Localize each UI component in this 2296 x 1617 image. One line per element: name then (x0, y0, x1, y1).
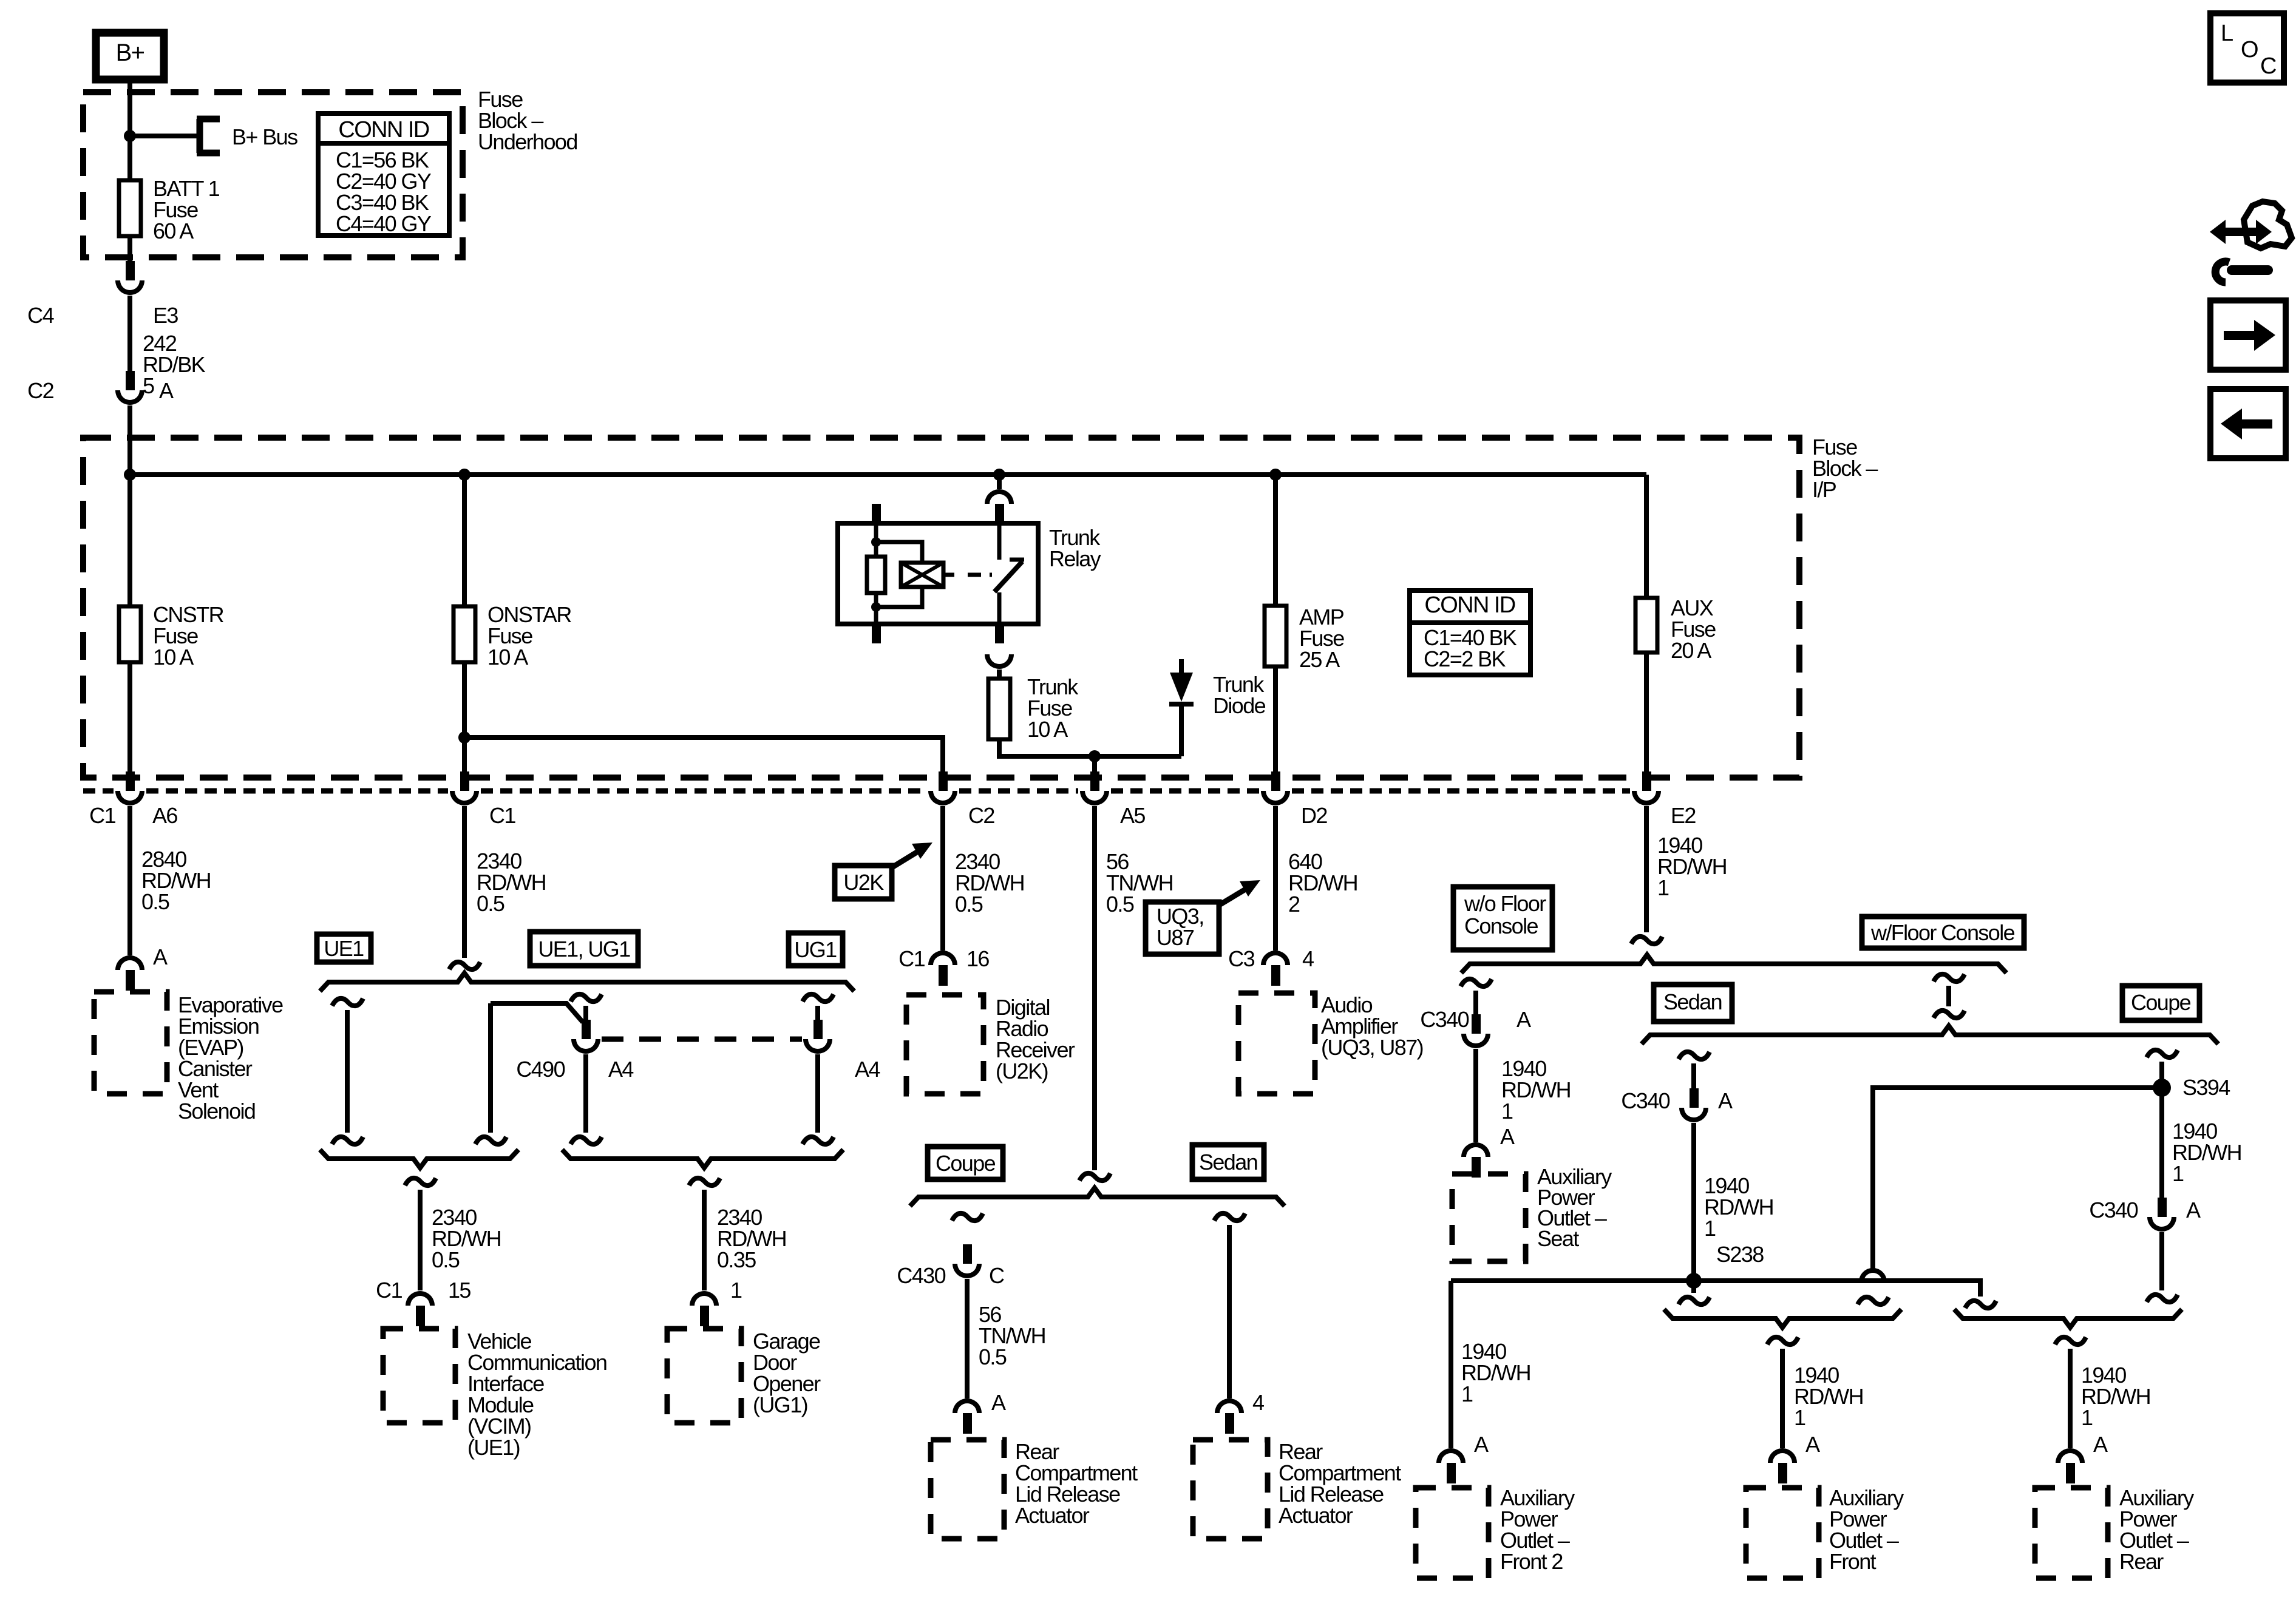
svg-text:C340: C340 (1420, 1007, 1469, 1032)
dashed jumper A4 A4 (602, 1037, 802, 1042)
brace rear outlet merge (1954, 1309, 2182, 1327)
svg-text:C: C (989, 1263, 1004, 1288)
svg-text:10 A: 10 A (1027, 717, 1068, 742)
svg-text:Coupe: Coupe (2131, 990, 2191, 1015)
svg-text:0.5: 0.5 (955, 892, 983, 917)
svg-text:1: 1 (1657, 875, 1669, 900)
svg-text:C4=40 GY: C4=40 GY (336, 211, 432, 236)
component garage door opener (667, 1329, 741, 1423)
svg-text:0.5: 0.5 (141, 889, 169, 914)
wire below C490 (583, 1054, 588, 1133)
option box UE1 UG1 (530, 932, 638, 966)
svg-text:S394: S394 (2182, 1075, 2230, 1100)
connector C340 A coupe (2158, 1198, 2167, 1217)
option box wo floor console (1453, 887, 1552, 950)
svg-text:A: A (159, 378, 174, 403)
component rear lid actuator coupe (931, 1440, 1004, 1539)
svg-text:E3: E3 (153, 303, 178, 328)
component VCIM (383, 1329, 455, 1423)
wire 2840 RD/WH (127, 806, 132, 955)
connector E2 (1642, 771, 1651, 791)
svg-text:A: A (1805, 1432, 1820, 1457)
svg-text:2: 2 (1288, 892, 1300, 917)
trunk relay feed wire (997, 475, 1002, 489)
svg-text:CONN ID: CONN ID (338, 117, 429, 143)
leg sedan outlet (1679, 1052, 1710, 1059)
svg-text:w/Floor Console: w/Floor Console (1870, 920, 2015, 945)
svg-text:(UQ3, U87): (UQ3, U87) (1321, 1035, 1423, 1060)
wire 1940 sedan (1691, 1123, 1696, 1281)
leg sedan actuator (1214, 1213, 1245, 1221)
conn id table IP (1410, 591, 1530, 675)
fuse AMP 25A (1273, 475, 1278, 606)
brace sedan coupe outlets (1642, 1026, 2218, 1044)
svg-text:CONN ID: CONN ID (1424, 592, 1515, 618)
stub S238 down (1691, 1284, 1696, 1293)
option marker A4 right (803, 994, 834, 1002)
relay coil node bottom (871, 602, 881, 612)
node ONSTAR split (458, 731, 470, 744)
wire 1940 RD/WH E2 (1644, 806, 1649, 932)
relay resistor (874, 523, 878, 557)
connector A4 right (813, 1020, 823, 1039)
connector C2 radio (939, 771, 948, 791)
wire ONSTAR branch right (464, 737, 943, 774)
svg-text:Diode: Diode (1213, 693, 1266, 718)
svg-text:1: 1 (730, 1278, 742, 1303)
fuse block underhood boundary (83, 92, 463, 257)
connector A5 (1090, 771, 1099, 791)
connector D2 (1271, 771, 1280, 791)
node bus-relay (993, 469, 1005, 481)
svg-text:C1: C1 (489, 803, 515, 828)
brace coupe sedan (910, 1188, 1285, 1206)
wire 2340 RD/WH 035 gdo (689, 1178, 720, 1185)
connector C430 pin C (963, 1244, 972, 1264)
fuse CNSTR 10A (127, 475, 132, 606)
component aux power outlet rear (2035, 1488, 2108, 1578)
option marker E2 (1631, 937, 1662, 944)
connector C1 onstar (460, 771, 469, 791)
wire relay to trunk fuse (997, 670, 1002, 679)
svg-text:E2: E2 (1671, 803, 1696, 828)
connector C340 A seat (1472, 1014, 1481, 1034)
connector C340 A sedan (1690, 1088, 1699, 1108)
component aux power outlet front2 (1416, 1488, 1489, 1578)
connector row boundary (83, 788, 114, 794)
svg-text:10 A: 10 A (487, 645, 528, 670)
wire CNSTR to connector (127, 662, 132, 774)
svg-text:Actuator: Actuator (1015, 1503, 1090, 1528)
svg-text:C3: C3 (1228, 946, 1254, 971)
svg-text:0.35: 0.35 (717, 1247, 756, 1272)
svg-text:5: 5 (143, 373, 154, 398)
svg-text:A: A (1474, 1432, 1489, 1457)
svg-text:1: 1 (2081, 1405, 2093, 1430)
relay coil node top (871, 537, 881, 547)
node trunk-A5 (1089, 750, 1101, 762)
relay coil (876, 542, 922, 563)
option marker C490 (571, 994, 602, 1002)
svg-text:Coupe: Coupe (936, 1151, 996, 1176)
svg-text:A: A (2186, 1198, 2201, 1222)
component rear lid actuator sedan (1193, 1440, 1268, 1539)
component audio amplifier (1238, 993, 1315, 1094)
svg-text:S238: S238 (1716, 1242, 1764, 1267)
main bus wire (130, 472, 1646, 477)
wire A5 down (1092, 756, 1097, 774)
component aux power outlet seat (1452, 1174, 1526, 1261)
svg-text:A6: A6 (152, 803, 177, 828)
component aux power outlet front (1746, 1488, 1819, 1578)
svg-text:C1: C1 (898, 946, 925, 971)
relay pin stubs (872, 504, 881, 523)
node bus-CNSTR (124, 469, 136, 481)
wire bus to AUX (1644, 475, 1649, 598)
svg-text:0.5: 0.5 (477, 891, 504, 916)
node bus-ONSTAR (458, 469, 470, 481)
icon hand wrench (2210, 220, 2272, 244)
diode trunk (1179, 704, 1184, 756)
svg-text:D2: D2 (1301, 803, 1327, 828)
svg-text:C490: C490 (516, 1057, 565, 1082)
wire 56 TN/WH A5 (1092, 806, 1097, 1170)
icon arrow left box (2210, 389, 2286, 458)
svg-text:60 A: 60 A (153, 219, 194, 243)
fuse AUX 20A (1635, 598, 1657, 653)
brace VCIM merge (320, 1150, 518, 1168)
fuse TRUNK 10A (988, 679, 1010, 739)
wire 56 TN/WH coupe (965, 1279, 970, 1398)
svg-text:C: C (2260, 53, 2276, 79)
svg-text:w/o Floor: w/o Floor (1464, 891, 1546, 916)
leg coupe outlet (2147, 1050, 2178, 1057)
svg-text:A5: A5 (1120, 803, 1145, 828)
option marker onstar (449, 962, 480, 969)
svg-text:25 A: 25 A (1299, 647, 1340, 672)
svg-text:Solenoid: Solenoid (178, 1099, 255, 1124)
svg-text:Rear: Rear (2119, 1549, 2164, 1574)
callout U2K (835, 866, 892, 899)
svg-text:Front 2: Front 2 (1500, 1549, 1563, 1574)
wire 1940 front2 (1449, 1281, 1453, 1448)
conn id table underhood (318, 114, 449, 236)
leg UE1 wire (332, 998, 363, 1006)
svg-text:A: A (153, 944, 168, 969)
svg-text:0.5: 0.5 (432, 1247, 460, 1272)
wire 2340 RD/WH 05 vcim (405, 1178, 436, 1185)
brace GDO merge (562, 1150, 843, 1168)
svg-text:I/P: I/P (1812, 477, 1836, 502)
icon LOC box (2210, 13, 2284, 83)
component EVAP canister vent solenoid (94, 992, 167, 1094)
component digital radio receiver (906, 995, 983, 1094)
connector C4 pin E3 (126, 261, 135, 280)
wire AUX to connector (1644, 653, 1649, 774)
connector C2 pin A (126, 371, 135, 390)
svg-text:Seat: Seat (1537, 1226, 1579, 1251)
wire ONSTAR to junction (462, 662, 467, 737)
node S238 junction (1686, 1273, 1702, 1289)
svg-text:A: A (1500, 1124, 1515, 1149)
wire B+ to fuse block (127, 80, 132, 137)
brace floor console options (1461, 955, 2006, 973)
svg-text:A4: A4 (608, 1057, 633, 1082)
leg junction to C490 (491, 1003, 583, 1022)
node B+ bus junction (124, 130, 136, 142)
svg-text:C2: C2 (968, 803, 994, 828)
relay switch (997, 523, 1002, 560)
svg-text:16: 16 (966, 946, 989, 971)
wire AMP to connector (1273, 666, 1278, 774)
svg-text:UE1: UE1 (324, 936, 364, 961)
svg-text:B+ Bus: B+ Bus (232, 124, 297, 149)
option box UE1 (317, 934, 371, 962)
svg-text:(U2K): (U2K) (996, 1059, 1048, 1083)
fuse BATT 1 60A (127, 137, 132, 180)
wire below A4 right (815, 1054, 820, 1133)
option marker A5 (1079, 1173, 1110, 1181)
wire 1940 seat (1473, 1049, 1478, 1142)
fuse block IP boundary (83, 438, 1799, 778)
relay box (838, 523, 1038, 624)
fuse ONSTAR 10A (462, 475, 467, 606)
wire 1940 front (1767, 1337, 1798, 1344)
icon arrow right box (2210, 300, 2286, 370)
svg-text:A4: A4 (855, 1057, 880, 1082)
connector C490 pin A4 (582, 1020, 591, 1039)
relay dashed link (968, 573, 992, 577)
wire 1940 coupe (2159, 1096, 2164, 1199)
svg-text:L: L (2221, 21, 2233, 46)
svg-text:C4: C4 (27, 303, 53, 328)
svg-text:1: 1 (1794, 1405, 1805, 1430)
trunk relay output connector (995, 624, 1004, 643)
svg-text:(UE1): (UE1) (467, 1435, 520, 1460)
option box Coupe (928, 1147, 1003, 1179)
svg-text:C430: C430 (897, 1263, 945, 1288)
wire S394 crossover (1873, 1088, 2162, 1271)
brace UE1 UG1 options (320, 973, 854, 991)
power node B+ (96, 33, 164, 80)
svg-text:A: A (2093, 1432, 2108, 1457)
svg-text:UG1: UG1 (794, 937, 837, 962)
svg-text:1: 1 (1704, 1216, 1716, 1241)
wire trunk fuse to A5 (999, 739, 1181, 756)
svg-text:A: A (1718, 1088, 1733, 1113)
svg-text:C1: C1 (376, 1278, 402, 1303)
option box UG1 (789, 933, 843, 966)
wire 640 RD/WH amp (1273, 806, 1278, 951)
svg-text:1: 1 (1461, 1381, 1473, 1406)
svg-text:B+: B+ (116, 39, 144, 66)
trunk relay input connector (985, 489, 1014, 504)
svg-text:Sedan: Sedan (1663, 989, 1722, 1014)
leg w console (1934, 974, 1965, 981)
B+ Bus tap (130, 134, 200, 138)
svg-text:O: O (2241, 37, 2258, 63)
svg-text:4: 4 (1302, 946, 1314, 971)
svg-text:4: 4 (1252, 1390, 1264, 1415)
node S394 (2153, 1079, 2171, 1097)
leg wo console (1461, 979, 1492, 986)
brace front outlet merge (1664, 1309, 1901, 1327)
callout UQ3 U87 (1146, 902, 1219, 954)
svg-text:0.5: 0.5 (979, 1344, 1007, 1369)
svg-text:Front: Front (1829, 1549, 1877, 1574)
svg-text:0.5: 0.5 (1106, 892, 1134, 917)
svg-text:1: 1 (2172, 1161, 2184, 1186)
svg-text:(UG1): (UG1) (753, 1392, 807, 1417)
svg-text:C340: C340 (1621, 1088, 1669, 1113)
wire into IP fuse block (127, 405, 132, 475)
svg-text:C1: C1 (89, 803, 115, 828)
svg-text:Console: Console (1464, 914, 1538, 938)
svg-text:A: A (991, 1390, 1006, 1415)
svg-text:Actuator: Actuator (1279, 1503, 1353, 1528)
wire onstar option (462, 806, 467, 958)
svg-text:15: 15 (448, 1278, 470, 1303)
svg-text:A: A (1517, 1007, 1531, 1032)
svg-text:Relay: Relay (1049, 546, 1101, 571)
svg-text:UE1, UG1: UE1, UG1 (538, 937, 630, 961)
wire ONSTAR down (462, 737, 467, 774)
svg-text:C2=2 BK: C2=2 BK (1424, 646, 1506, 671)
svg-text:10 A: 10 A (153, 645, 194, 670)
connector C1 pin A6 (126, 771, 135, 791)
svg-text:U87: U87 (1156, 925, 1194, 950)
svg-text:Sedan: Sedan (1199, 1150, 1257, 1175)
leg coupe actuator (952, 1213, 983, 1221)
wire 2340 RD/WH radio (940, 806, 945, 951)
option box Sedan (1192, 1145, 1264, 1179)
svg-text:C340: C340 (2089, 1198, 2138, 1222)
wire 1940 rear (2055, 1337, 2086, 1344)
wire 242 RD/BK 5 (127, 296, 132, 371)
svg-text:20 A: 20 A (1671, 638, 1711, 663)
node bus-AMP (1269, 469, 1282, 481)
option box w floor console (1862, 917, 2024, 948)
svg-text:C2: C2 (27, 378, 53, 403)
svg-text:U2K: U2K (843, 870, 884, 895)
option box Sedan outlets (1654, 985, 1732, 1022)
wire S238 bus (1451, 1281, 1980, 1297)
wire below C340 coupe (2159, 1232, 2164, 1290)
option box Coupe outlets (2122, 986, 2199, 1020)
svg-text:1: 1 (1501, 1099, 1513, 1124)
svg-text:Underhood: Underhood (478, 129, 577, 154)
